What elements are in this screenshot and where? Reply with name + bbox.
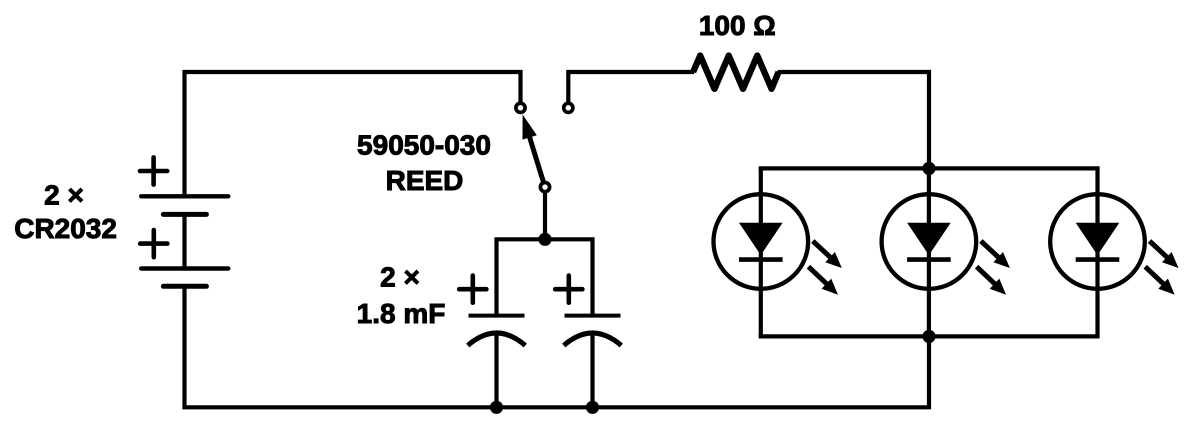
LED D2 <box>882 168 1010 336</box>
wire: resistor to LED bus <box>778 72 929 168</box>
wire: switch right throw to resistor <box>568 72 694 102</box>
svg-text:2 ×: 2 × <box>380 261 420 292</box>
junction: switch pole / capacitor rail <box>538 233 551 246</box>
LED D3 <box>1050 168 1178 336</box>
svg-text:59050-030: 59050-030 <box>357 130 491 161</box>
switch S1 left throw contact <box>516 103 525 112</box>
capacitor C2 <box>555 276 621 408</box>
switch S1 pole contact <box>540 183 549 192</box>
svg-text:REED: REED <box>386 165 464 196</box>
battery BT1 2x CR2032 <box>140 157 228 286</box>
wire: switch pole down to capacitor rail <box>543 192 547 240</box>
switch S1 right throw contact <box>564 103 573 112</box>
junction: C2 to ground rail <box>586 401 599 414</box>
wire: bottom rail battery negative to LED return <box>185 287 930 407</box>
resistor R1 zigzag <box>693 56 779 89</box>
switch S1 blade with arrow <box>529 136 545 187</box>
svg-text:CR2032: CR2032 <box>14 213 117 244</box>
wire: LED cathode bus <box>759 334 1100 338</box>
wire: LED anode bus <box>759 166 1100 170</box>
LED D1 <box>714 168 842 336</box>
junction: resistor feed / anode bus <box>922 162 935 175</box>
junction: cathode bus / return <box>922 330 935 343</box>
svg-text:2 ×: 2 × <box>44 180 84 211</box>
svg-text:100 Ω: 100 Ω <box>699 10 776 41</box>
junction: C1 to ground rail <box>490 401 503 414</box>
wire: battery positive to switch left throw <box>185 72 521 195</box>
svg-text:1.8 mF: 1.8 mF <box>357 298 446 329</box>
capacitor C1 <box>459 276 525 408</box>
wire: capacitor top rail <box>497 239 593 314</box>
